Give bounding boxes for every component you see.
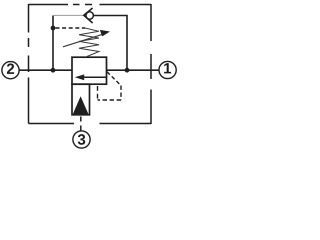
spring (zigzag): [79, 28, 99, 57]
pilot passage (dashed) right vertical: [120, 86, 122, 101]
check valve seat: [84, 8, 93, 23]
pilot passage (dashed) up to main box bottom: [97, 86, 99, 100]
digit 3: [78, 134, 85, 145]
flow arrow inside main box (pointing left): [78, 76, 107, 78]
wire: vertical branch from port 2 line up to check valve: [52, 16, 54, 71]
cartridge boundary left edge: [28, 4, 30, 124]
digit 1: [164, 63, 171, 73]
adjustment arrow head: [100, 30, 110, 37]
junction dot on port 1 line: [125, 68, 130, 73]
wire: thin gray line to check valve seat: [53, 14, 84, 16]
port 1 circle: [159, 61, 176, 78]
adjustment arrow shaft: [63, 34, 103, 47]
cartridge boundary bottom edge: [29, 123, 152, 125]
cartridge boundary (dashed rectangle) top edge: [29, 4, 152, 6]
wire: port 2 line to main valve box: [19, 69, 72, 71]
wire: port 1 line from main valve box to port 1: [107, 69, 160, 71]
pilot passage (dashed) diagonal from port 1 corner: [107, 72, 121, 86]
check valve ball: [86, 12, 93, 19]
cartridge boundary right edge: [150, 4, 152, 124]
pilot line (dashed) from junction to spring top: [56, 27, 86, 29]
flow arrow head: [75, 74, 84, 80]
port 3 circle: [73, 131, 90, 148]
port 2 circle: [2, 62, 19, 79]
digit 2: [7, 63, 14, 73]
wire: check valve outlet to right: [93, 16, 127, 71]
pilot passage (dashed) bottom horizontal: [98, 99, 122, 101]
main valve box: [72, 57, 107, 84]
junction dot at pilot tap: [51, 26, 56, 31]
pilot relief poppet (filled triangle): [73, 96, 89, 114]
wire: dashed drain line to port 3: [80, 117, 82, 131]
pilot relief box (lower): [72, 84, 90, 115]
junction dot on port 2 line: [51, 68, 56, 73]
